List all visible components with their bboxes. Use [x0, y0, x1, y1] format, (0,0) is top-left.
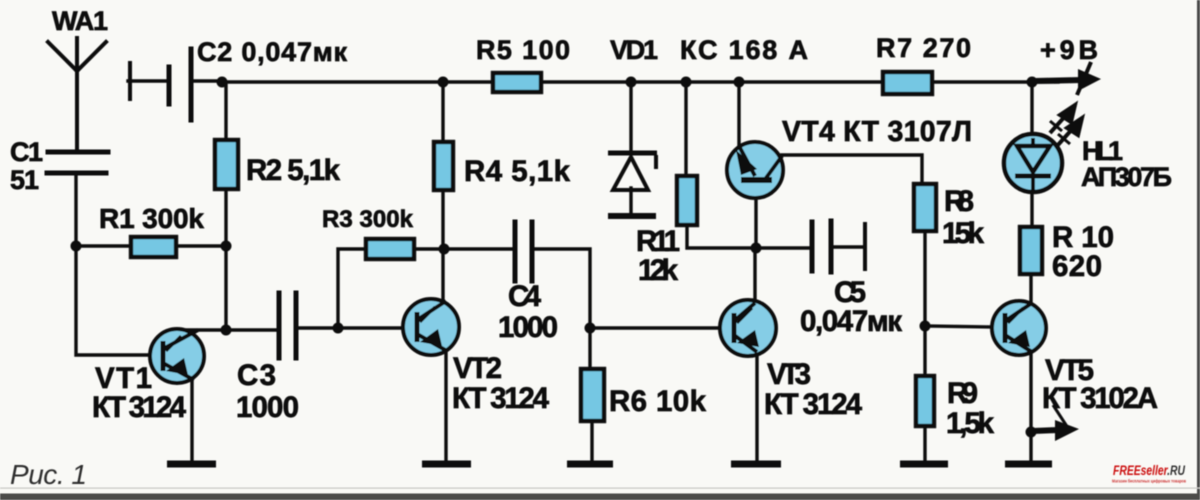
svg-text:R5 100: R5 100: [476, 35, 570, 65]
resistor R1: [131, 237, 176, 257]
wire VT1 emitter: [190, 381, 193, 462]
svg-text:C1: C1: [10, 137, 43, 167]
wire C5 right with stub bar: [833, 245, 863, 248]
node R11-VT4-VT3-C5 junction: [751, 243, 762, 254]
ground (R6): [567, 461, 613, 468]
capacitor C4: [515, 222, 532, 281]
node VT5 emitter output junction: [1026, 427, 1037, 438]
node C1-R1-VT1 base junction: [71, 241, 82, 252]
wire VT5 emitter: [1029, 351, 1032, 462]
wire R4 bottom / VT2 collector: [441, 190, 444, 300]
node R1-R2 junction: [221, 241, 232, 252]
wire to VT3 base: [590, 326, 725, 329]
node VT1 collector junction: [221, 325, 232, 336]
node R8-R9-VT5 base junction: [920, 321, 931, 332]
svg-text:51: 51: [10, 165, 39, 195]
watermark FREEseller.RU: [1112, 463, 1186, 484]
wire VT3 collector: [753, 248, 756, 302]
ground (VT1): [167, 461, 216, 468]
wire R2 top: [224, 82, 227, 140]
right border: [1197, 0, 1200, 500]
svg-text:1,5k: 1,5k: [946, 407, 995, 440]
node C4-R6-VT3 base junction: [585, 323, 596, 334]
svg-text:15k: 15k: [942, 217, 985, 250]
svg-text:R2 5,1k: R2 5,1k: [246, 154, 341, 187]
transistor VT2: [403, 299, 459, 355]
resistor R3: [366, 239, 414, 259]
wire top rail: [222, 80, 1058, 83]
wire C3 to VT2 base: [298, 326, 406, 329]
wire C4 right down to VT3 base line: [534, 249, 590, 328]
wire VT4 emitter top: [737, 82, 740, 145]
node HL1 rail junction: [1027, 77, 1038, 88]
wire R9 bottom: [923, 426, 926, 462]
svg-text:R1 300k: R1 300k: [99, 203, 204, 234]
svg-text:КТ 3102А: КТ 3102А: [1042, 382, 1158, 415]
svg-text:+9В: +9В: [1040, 35, 1098, 65]
svg-text:FREEseller.RU: FREEseller.RU: [1113, 463, 1186, 478]
svg-text:КТ 3124: КТ 3124: [764, 388, 863, 421]
capacitor C5: [812, 221, 831, 272]
svg-text:R9: R9: [947, 377, 978, 410]
wire HL1 bottom to R10: [1030, 192, 1033, 227]
node R3-R4-C4-VT2 collector junction: [439, 244, 450, 255]
svg-text:VD1: VD1: [610, 35, 658, 65]
svg-text:КТ 3124: КТ 3124: [452, 382, 550, 415]
wire R9 top: [923, 326, 926, 376]
wire R1 right: [176, 244, 226, 247]
svg-text:WA1: WA1: [52, 6, 108, 36]
node R11 rail junction: [681, 77, 692, 88]
wire R2 bottom: [224, 189, 227, 330]
capacitor C2 stub bar: [128, 63, 132, 99]
node C2-R2 rail junction: [217, 77, 228, 88]
svg-text:КТ 3124: КТ 3124: [92, 391, 187, 424]
wire C4 left: [444, 247, 513, 250]
node VD1 rail junction: [626, 77, 637, 88]
node VT4 emitter rail junction: [734, 77, 745, 88]
svg-text:1000: 1000: [236, 391, 299, 424]
svg-text:C 3: C 3: [237, 359, 276, 392]
wire C2 right: [193, 79, 222, 82]
resistor R9: [916, 376, 934, 426]
svg-text:R4 5,1k: R4 5,1k: [464, 155, 571, 188]
node R4 rail junction: [438, 77, 449, 88]
capacitor C1: [47, 152, 108, 173]
wire R3 branch: [338, 249, 366, 328]
svg-text:C4: C4: [508, 280, 542, 313]
svg-text:АП307Б: АП307Б: [1081, 162, 1172, 192]
+9V arrow: [1036, 62, 1101, 95]
HL1 emission arrows: [1050, 105, 1082, 146]
svg-text:Магазин бесплатных цифровых то: Магазин бесплатных цифровых товаров: [1112, 478, 1186, 484]
LED HL1: [1004, 134, 1062, 192]
resistor R6: [581, 369, 604, 421]
svg-text:1000: 1000: [498, 311, 558, 344]
wire R6 bottom: [590, 421, 593, 462]
resistor R7: [883, 72, 932, 94]
ground (R9): [900, 461, 948, 468]
wire VT4 base down: [754, 197, 757, 248]
svg-text:R3 300k: R3 300k: [322, 206, 414, 233]
ground (VT5): [1005, 461, 1052, 468]
wire VT1 collector to C3: [176, 328, 277, 331]
wire node to VT5 base: [925, 326, 994, 327]
transistor VT4: [727, 142, 783, 198]
capacitor C3: [279, 293, 296, 358]
resistor R8: [914, 184, 936, 231]
transistor VT1: [150, 329, 204, 383]
transistor VT3: [720, 300, 776, 356]
ground (VT2): [422, 461, 471, 468]
node C3-R3-VT2 base junction: [333, 323, 344, 334]
wire VT2 emitter: [444, 353, 447, 462]
transistor VT5: [992, 301, 1046, 355]
wire VD1 anode: [629, 188, 632, 214]
svg-text:Рис. 1: Рис. 1: [10, 459, 87, 490]
wire R8 bottom: [923, 231, 926, 326]
ground (VT3): [731, 461, 781, 468]
svg-text:VT4 КТ 3107Л: VT4 КТ 3107Л: [782, 116, 972, 148]
svg-text:R6 10k: R6 10k: [609, 385, 707, 418]
wire C1 to R1 node: [74, 175, 77, 246]
wire VD1 top: [629, 82, 632, 151]
wire R4 top: [441, 82, 444, 142]
output arrow at VT5 emitter: [1033, 405, 1079, 441]
wire C2 left: [128, 79, 166, 82]
svg-text:12k: 12k: [638, 254, 679, 287]
wire R6 top: [588, 328, 591, 369]
svg-text:R8: R8: [944, 185, 974, 218]
wire VT3 emitter: [755, 356, 758, 462]
wire R11 top: [684, 82, 687, 176]
wire R3 right: [414, 247, 444, 250]
capacitor C2: [169, 49, 191, 120]
wire R1 left: [76, 244, 131, 247]
resistor R5: [493, 73, 541, 92]
resistor R4: [434, 142, 453, 190]
svg-text:VT2: VT2: [453, 352, 502, 385]
wire node to VT1 base: [76, 246, 152, 355]
svg-text:C2 0,047мк: C2 0,047мк: [197, 37, 347, 67]
bottom border: [0, 488, 1200, 489]
antenna WA1: [48, 38, 106, 148]
resistor R10: [1020, 227, 1042, 274]
wire R11 bottom to node: [687, 225, 809, 248]
svg-text:620: 620: [1052, 250, 1102, 283]
wire HL1 top: [1030, 82, 1033, 137]
wire R10 bottom to VT5: [1029, 274, 1032, 304]
resistor R11: [677, 176, 697, 225]
svg-text:0,047мк: 0,047мк: [800, 305, 902, 338]
svg-text:VT3: VT3: [767, 358, 811, 391]
resistor R2: [215, 140, 238, 189]
wire VT4 collector to R8: [782, 155, 922, 184]
zener diode VD1: [608, 153, 657, 216]
svg-text:R7 270: R7 270: [876, 33, 971, 63]
